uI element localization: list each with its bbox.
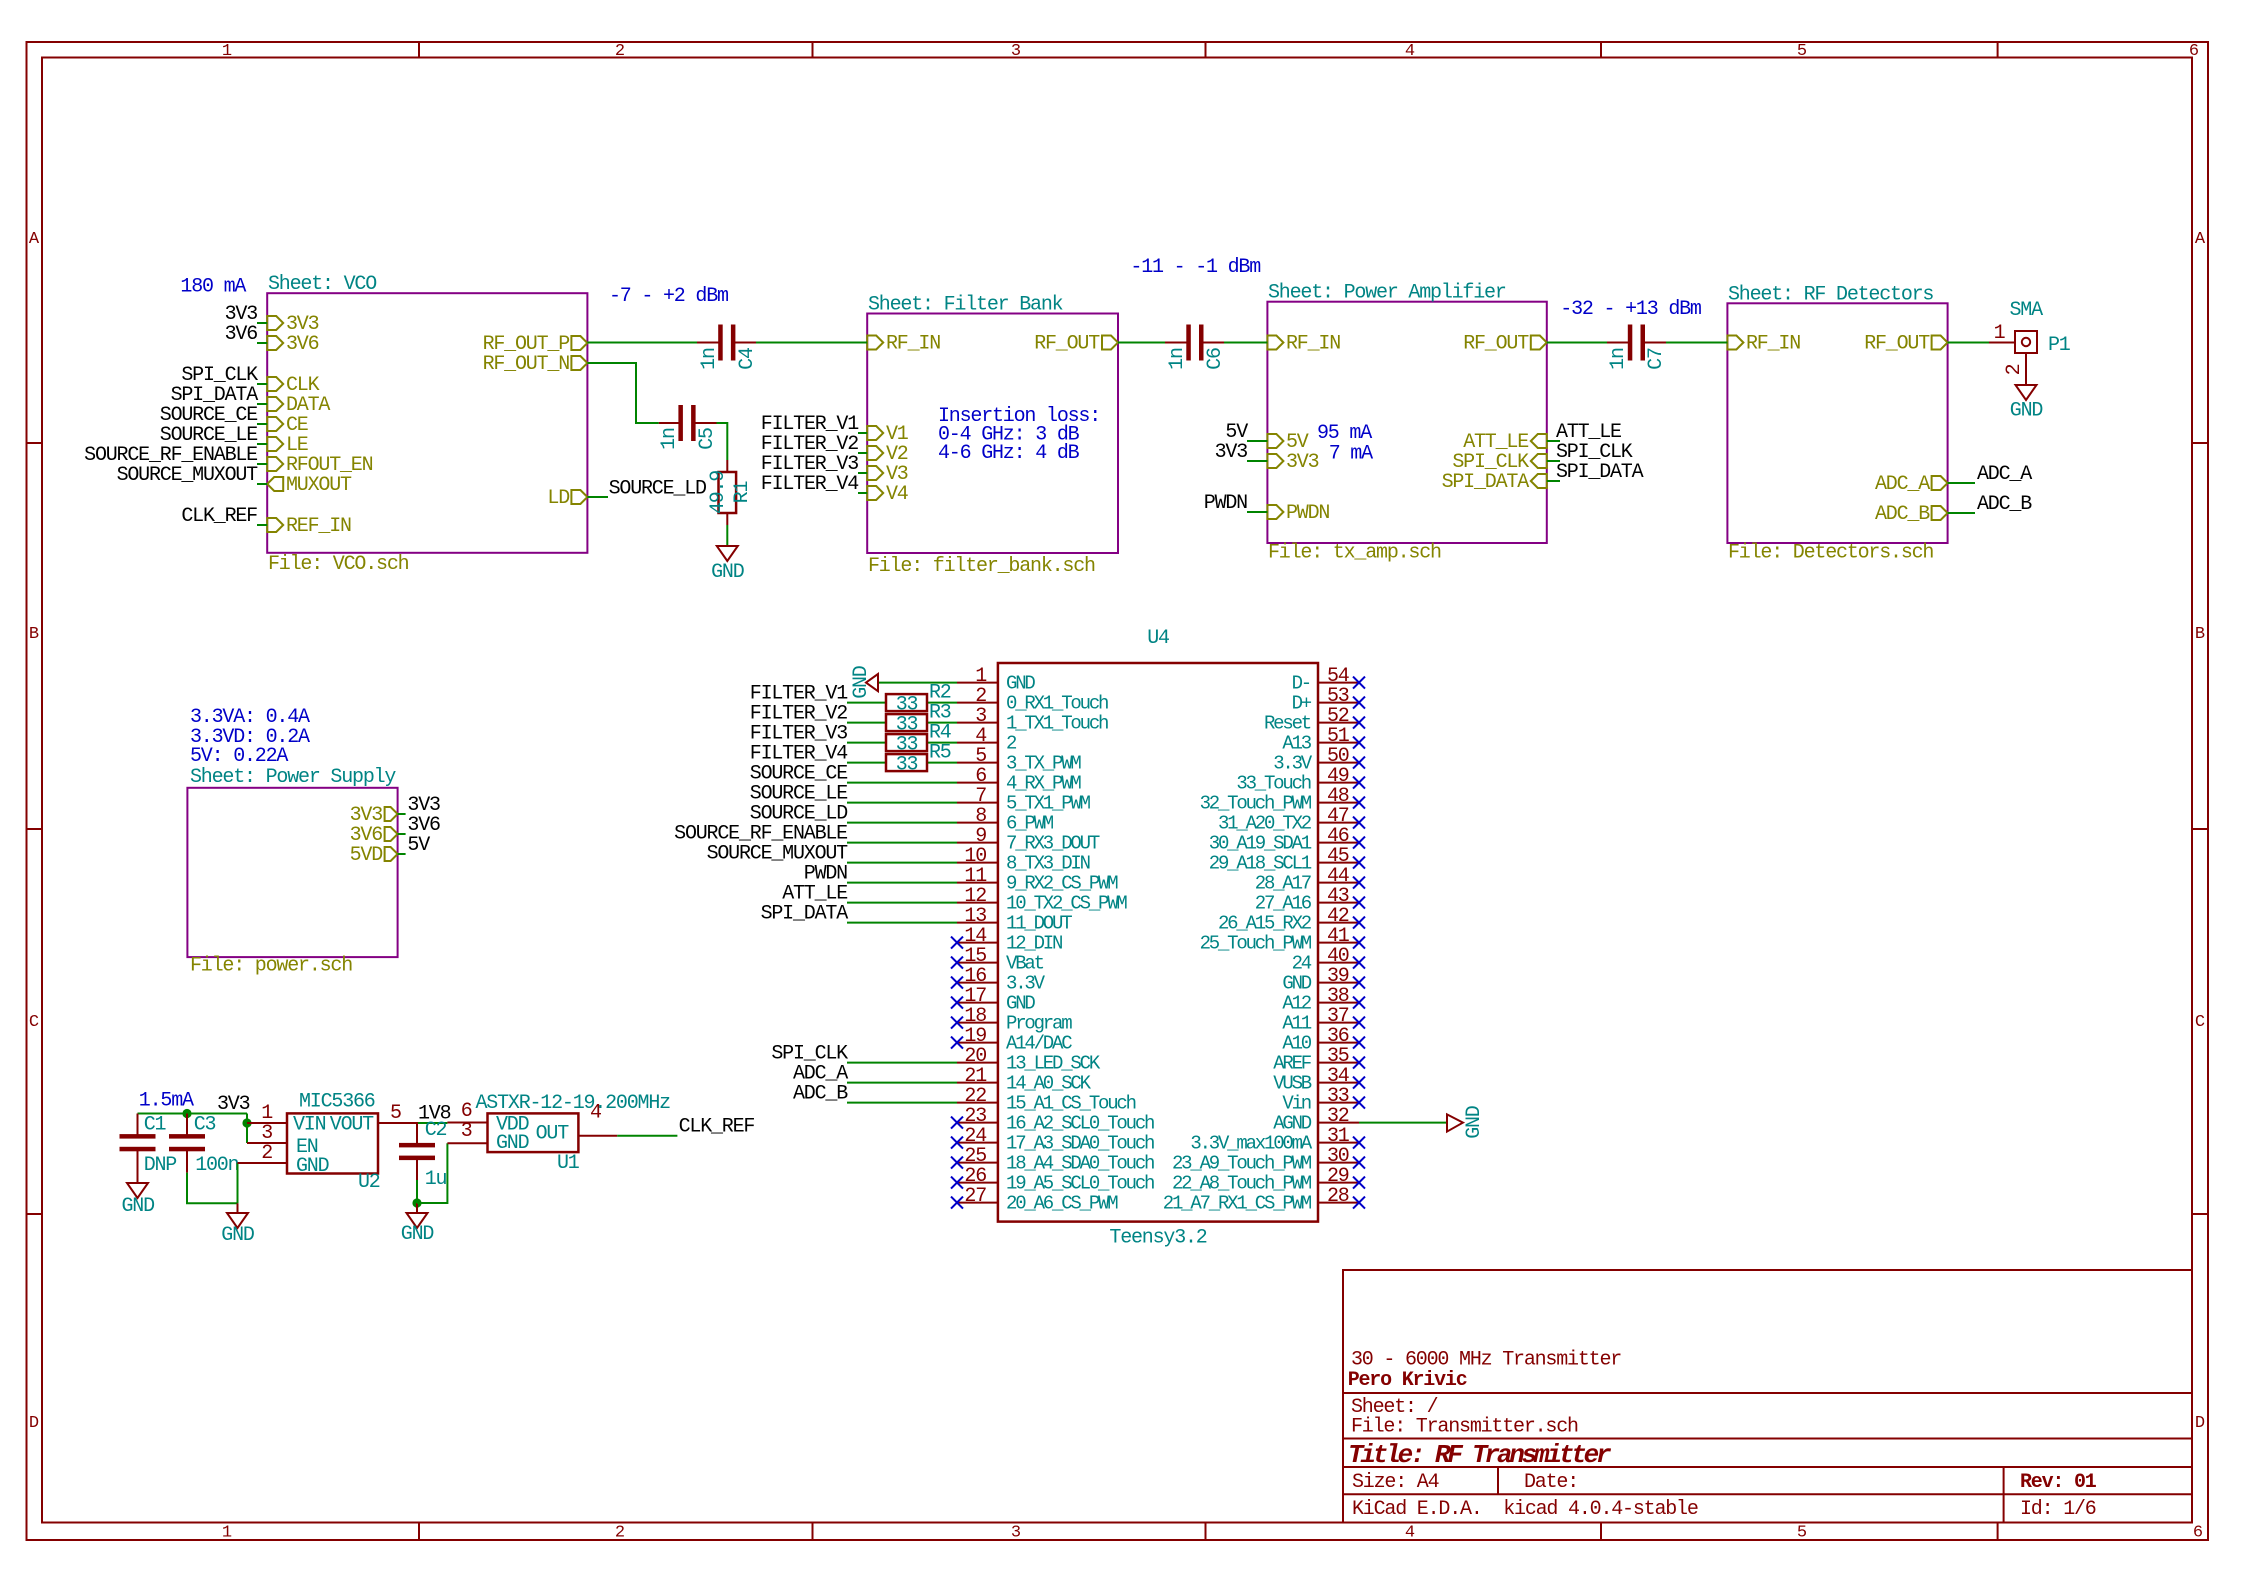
junction at C2 ground <box>412 1198 421 1207</box>
net label SOURCE_LD at U4 <box>750 803 847 826</box>
svg-text:3.3V_max100mA: 3.3V_max100mA <box>1190 1133 1312 1155</box>
note insertion loss <box>938 405 1100 465</box>
svg-text:8_TX3_DIN: 8_TX3_DIN <box>1006 853 1090 875</box>
PA sheet pin PWDN <box>1267 502 1329 525</box>
svg-text:49.9: 49.9 <box>707 471 730 514</box>
sheet name Power Amplifier <box>1268 282 1506 305</box>
sheet file filter_bank.sch <box>868 555 1095 578</box>
global label GND at U4 pin 1 <box>850 666 878 699</box>
net label SOURCE_LE at U4 <box>750 783 847 806</box>
wire R1 to ground <box>726 525 728 546</box>
wire P1 pin 2 to ground <box>2025 353 2027 385</box>
net label ADC_B <box>1977 493 2032 516</box>
svg-text:23_A9_Touch_PWM: 23_A9_Touch_PWM <box>1172 1153 1312 1175</box>
U4 pin 28 21_A7_RX1_CS_PWM <box>1163 1185 1365 1215</box>
svg-text:RF_IN: RF_IN <box>886 333 940 356</box>
net label FILTER_V4 <box>761 473 858 496</box>
U2 name MIC5366 <box>299 1091 375 1114</box>
wire stub to VCO 3V6 <box>257 342 267 344</box>
U4 pin 50 3.3V <box>1273 745 1365 775</box>
svg-text:95 mA: 95 mA <box>1317 422 1372 445</box>
svg-text:1: 1 <box>222 42 232 61</box>
wire RF_OUT_N to C5 <box>587 363 658 423</box>
svg-text:SOURCE_MUXOUT: SOURCE_MUXOUT <box>117 464 259 487</box>
U1 reference designator <box>557 1152 580 1175</box>
svg-text:1: 1 <box>222 1524 232 1543</box>
U4 pin 54 D- <box>1292 665 1365 695</box>
note power supply currents <box>190 706 310 768</box>
svg-text:-7 - +2 dBm: -7 - +2 dBm <box>609 285 728 308</box>
svg-text:REF_IN: REF_IN <box>286 515 351 538</box>
net label 3V3 at Power <box>407 794 440 817</box>
connector P1 SMA <box>2010 299 2071 357</box>
Filter sheet pin RF_IN <box>867 333 940 356</box>
wire mid ground to U2 GND pin <box>237 1163 239 1203</box>
net label ADC_A at U4 <box>793 1063 848 1086</box>
sheet file VCO.sch <box>268 553 409 576</box>
U4 pin 37 A11 <box>1282 1005 1365 1035</box>
svg-text:11_DOUT: 11_DOUT <box>1006 913 1072 935</box>
P1 pin 1 number <box>1994 322 2006 345</box>
svg-text:VIN: VIN <box>293 1113 326 1136</box>
U4 pin 42 26_A15_RX2 <box>1218 905 1365 935</box>
ground mid below U2 <box>221 1203 254 1247</box>
wire U1 OUT to CLK_REF <box>617 1135 677 1137</box>
U4 pin 23 16_A2_SCL0_Touch <box>951 1105 1154 1135</box>
svg-text:A11: A11 <box>1282 1013 1311 1035</box>
net label SOURCE_MUXOUT <box>117 464 259 487</box>
svg-text:7 mA: 7 mA <box>1329 443 1373 466</box>
U4 pin 51 A13 <box>1282 725 1365 755</box>
svg-text:15_A1_CS_Touch: 15_A1_CS_Touch <box>1006 1093 1136 1115</box>
svg-text:9_RX2_CS_PWM: 9_RX2_CS_PWM <box>1006 873 1118 895</box>
U4 pin 13 11_DOUT <box>957 905 1072 935</box>
wire C3 to mid ground <box>187 1173 238 1204</box>
Filter sheet pin V4 <box>867 483 908 506</box>
title block file <box>1351 1416 1578 1439</box>
net label ATT_LE at U4 <box>782 883 847 906</box>
svg-text:Vin: Vin <box>1282 1093 1310 1115</box>
svg-text:C6: C6 <box>1204 348 1227 370</box>
svg-text:U4: U4 <box>1147 627 1169 650</box>
Power sheet pin 5VD <box>350 844 398 867</box>
svg-text:Title: RF Transmitter: Title: RF Transmitter <box>1348 1440 1612 1470</box>
PA sheet pin 5V <box>1267 431 1308 454</box>
svg-text:C1: C1 <box>144 1113 167 1136</box>
capacitor C5 <box>658 405 719 450</box>
svg-text:19_A5_SCL0_Touch: 19_A5_SCL0_Touch <box>1006 1173 1154 1195</box>
net label 3V3 at U2 <box>217 1093 250 1116</box>
svg-text:MIC5366: MIC5366 <box>299 1091 375 1114</box>
svg-text:2: 2 <box>615 1524 625 1543</box>
svg-text:28: 28 <box>1327 1185 1349 1208</box>
svg-text:1u: 1u <box>425 1168 447 1191</box>
Detectors sheet pin ADC_A <box>1875 473 1948 496</box>
U4 pin 14 12_DIN <box>951 925 1062 955</box>
VCO sheet pin LD <box>547 487 587 510</box>
svg-text:ADC_B: ADC_B <box>793 1083 848 1106</box>
U4 pin 27 20_A6_CS_PWM <box>951 1185 1118 1215</box>
svg-text:28_A17: 28_A17 <box>1255 873 1311 895</box>
U4 pin 47 31_A20_TX2 <box>1218 805 1365 835</box>
svg-text:4_RX_PWM: 4_RX_PWM <box>1006 773 1081 795</box>
svg-text:3: 3 <box>461 1120 472 1143</box>
svg-text:16_A2_SCL0_Touch: 16_A2_SCL0_Touch <box>1006 1113 1154 1135</box>
net label SOURCE_CE <box>160 404 257 427</box>
svg-text:1: 1 <box>1994 322 2006 345</box>
U4 pin 22 15_A1_CS_Touch <box>957 1085 1136 1115</box>
svg-text:File: filter_bank.sch: File: filter_bank.sch <box>868 555 1095 578</box>
net label SOURCE_CE at U4 <box>750 763 847 786</box>
svg-text:24: 24 <box>1292 953 1312 975</box>
svg-text:3_TX_PWM: 3_TX_PWM <box>1006 753 1081 775</box>
svg-text:File: Transmitter.sch: File: Transmitter.sch <box>1351 1416 1578 1439</box>
svg-text:27: 27 <box>964 1185 986 1208</box>
resistor R4 <box>886 722 951 757</box>
U4 pin 25 18_A4_SDA0_Touch <box>951 1145 1154 1175</box>
svg-text:SMA: SMA <box>2010 299 2044 322</box>
note -32 - +13 dBm <box>1560 298 1701 321</box>
svg-text:5V: 5V <box>407 834 430 857</box>
svg-text:Id: 1/6: Id: 1/6 <box>2020 1498 2096 1521</box>
hierarchical sheet Filter Bank <box>867 314 1118 554</box>
U4 pin 32 AGND <box>1273 1105 1359 1135</box>
svg-text:20_A6_CS_PWM: 20_A6_CS_PWM <box>1006 1193 1118 1215</box>
wire SOURCE_CE to U4 pin 6 <box>847 782 957 784</box>
U4 pin 6 4_RX_PWM <box>957 765 1081 795</box>
sheet name Power Supply <box>190 766 396 789</box>
VCO sheet pin RF_OUT_P <box>483 333 588 356</box>
svg-text:31_A20_TX2: 31_A20_TX2 <box>1218 813 1312 835</box>
svg-text:SPI_DATA: SPI_DATA <box>1442 471 1530 494</box>
svg-text:14_A0_SCK: 14_A0_SCK <box>1006 1073 1092 1095</box>
U4 pin 15 VBat <box>951 945 1044 975</box>
svg-text:ADC_B: ADC_B <box>1875 503 1930 526</box>
svg-text:Reset: Reset <box>1264 713 1311 735</box>
wire C6 to PA RF_IN <box>1224 342 1267 344</box>
U1 pin 6 VDD <box>447 1100 528 1136</box>
U1 pin 4 OUT <box>536 1101 618 1145</box>
svg-text:33: 33 <box>896 754 918 777</box>
ground below C2 <box>401 1203 434 1246</box>
VCO sheet pin 3V3 <box>267 313 318 336</box>
U4 pin 34 VUSB <box>1273 1065 1365 1095</box>
wire from Power 5VD <box>398 853 406 855</box>
svg-text:C5: C5 <box>696 428 719 450</box>
net label FILTER_V2 at U4 <box>750 703 847 726</box>
sheet file Detectors.sch <box>1728 542 1933 565</box>
Detectors sheet pin RF_OUT <box>1864 333 1947 356</box>
svg-text:C3: C3 <box>194 1113 216 1136</box>
hierarchical sheet VCO <box>267 293 587 553</box>
svg-text:Sheet: Power Amplifier: Sheet: Power Amplifier <box>1268 282 1506 305</box>
U1 name ASTXR-12-19.200MHz <box>476 1092 671 1115</box>
svg-text:17_A3_SDA0_Touch: 17_A3_SDA0_Touch <box>1006 1133 1154 1155</box>
svg-text:5VD: 5VD <box>350 844 383 867</box>
U4 pin 24 17_A3_SDA0_Touch <box>951 1125 1154 1155</box>
svg-text:C4: C4 <box>736 348 759 370</box>
svg-text:3V6: 3V6 <box>225 323 258 346</box>
svg-text:13_LED_SCK: 13_LED_SCK <box>1006 1053 1101 1075</box>
svg-text:-32 - +13 dBm: -32 - +13 dBm <box>1560 298 1701 321</box>
wire SOURCE_LD to U4 pin 8 <box>847 822 957 824</box>
svg-text:LD: LD <box>547 487 569 510</box>
svg-text:ADC_A: ADC_A <box>1875 473 1930 496</box>
svg-text:100n: 100n <box>195 1154 238 1177</box>
svg-text:U1: U1 <box>557 1152 580 1175</box>
ground below P1 <box>2010 385 2043 423</box>
U4 pin 49 33_Touch <box>1236 765 1365 795</box>
net label FILTER_V2 <box>761 433 858 456</box>
capacitor C6 <box>1165 325 1227 370</box>
svg-text:Sheet: RF Detectors: Sheet: RF Detectors <box>1728 283 1933 306</box>
net label ATT_LE <box>1556 421 1621 444</box>
svg-text:C: C <box>2195 1013 2205 1032</box>
U4 value Teensy3.2 <box>1109 1226 1206 1249</box>
title block frame <box>1343 1270 2192 1523</box>
svg-text:26_A15_RX2: 26_A15_RX2 <box>1218 913 1312 935</box>
svg-text:GND: GND <box>711 561 744 584</box>
sheet file power.sch <box>190 954 352 977</box>
PA sheet pin ATT_LE <box>1463 431 1547 454</box>
capacitor C1 <box>120 1113 177 1183</box>
svg-text:30 - 6000 MHz Transmitter: 30 - 6000 MHz Transmitter <box>1351 1349 1621 1372</box>
U4 pin 29 22_A8_Touch_PWM <box>1172 1165 1365 1195</box>
svg-text:R5: R5 <box>929 742 951 765</box>
U4 reference designator <box>1147 627 1169 650</box>
resistor R5 <box>886 742 951 777</box>
sheet file tx_amp.sch <box>1268 542 1441 565</box>
title block date <box>1524 1471 1578 1494</box>
svg-text:SPI_DATA: SPI_DATA <box>761 903 849 926</box>
junction at VIN <box>242 1118 251 1127</box>
P1 pin 2 number <box>2003 364 2026 375</box>
wire stub to VCO 3V3 <box>257 322 267 324</box>
svg-text:U2: U2 <box>358 1171 380 1194</box>
wire ATT_LE to U4 pin 12 <box>847 902 957 904</box>
svg-text:3: 3 <box>1011 1524 1021 1543</box>
svg-text:B: B <box>29 625 39 644</box>
VCO sheet pin CLK <box>267 374 319 397</box>
svg-text:180 mA: 180 mA <box>180 276 246 299</box>
sheet name VCO <box>268 273 376 296</box>
U4 pin 7 5_TX1_PWM <box>957 785 1091 815</box>
svg-text:3.3V: 3.3V <box>1006 973 1046 995</box>
svg-text:ADC_A: ADC_A <box>1977 463 2032 486</box>
svg-text:RF_OUT: RF_OUT <box>1463 333 1529 356</box>
capacitor C4 <box>697 325 759 370</box>
U4 pin 18 Program <box>951 1005 1072 1035</box>
U4 pin 16 3.3V <box>951 965 1046 995</box>
svg-text:AREF: AREF <box>1273 1053 1312 1075</box>
wire stub to Filter V4 <box>858 492 867 494</box>
wire rail elbow to VIN <box>246 1114 248 1124</box>
wire C2 to ground <box>416 1180 418 1203</box>
svg-text:-11 - -1 dBm: -11 - -1 dBm <box>1130 256 1260 279</box>
svg-text:6_PWM: 6_PWM <box>1006 813 1054 835</box>
wire stub to PA 5V <box>1247 440 1267 442</box>
VCO sheet pin MUXOUT <box>267 474 352 497</box>
svg-text:MUXOUT: MUXOUT <box>286 474 352 497</box>
svg-text:5: 5 <box>1797 1524 1807 1543</box>
wire VCO LD to label <box>587 496 608 498</box>
svg-text:PWDN: PWDN <box>1286 502 1329 525</box>
svg-text:RF_IN: RF_IN <box>1746 333 1800 356</box>
net label 3V3 <box>225 303 258 326</box>
U4 pin 21 14_A0_SCK <box>957 1065 1092 1095</box>
wire stub to PA PWDN <box>1247 511 1267 513</box>
net label 3V6 at Power <box>407 814 440 837</box>
svg-text:SOURCE_LD: SOURCE_LD <box>609 478 706 501</box>
IC U1 ASTXR body <box>488 1113 579 1152</box>
sheet name RF Detectors <box>1728 283 1933 306</box>
wire C4 to Filter RF_IN <box>756 342 867 344</box>
svg-text:Pero Krivic: Pero Krivic <box>1348 1369 1467 1392</box>
VCO sheet pin CE <box>267 414 308 437</box>
capacitor C7 <box>1607 325 1668 370</box>
wire VOUT to VDD <box>418 1122 447 1124</box>
global label GND at U4 pin 32 <box>1447 1106 1486 1139</box>
net label SPI_CLK at U4 <box>771 1043 848 1066</box>
svg-text:GND: GND <box>850 666 873 699</box>
svg-text:A13: A13 <box>1282 733 1311 755</box>
Power sheet pin 3V6 <box>350 824 398 847</box>
wire R4 to U4 pin 4 <box>927 742 957 744</box>
IC U4 Teensy3.2 body <box>998 663 1318 1222</box>
svg-text:3V3: 3V3 <box>217 1093 250 1116</box>
svg-text:KiCad E.D.A. kicad 4.0.4-stab: KiCad E.D.A. kicad 4.0.4-stable <box>1352 1498 1698 1521</box>
ground below C1 <box>121 1183 154 1218</box>
wire PA RF_OUT to C7 <box>1547 342 1607 344</box>
U4 pin 40 24 <box>1292 945 1365 975</box>
svg-text:D: D <box>2195 1414 2205 1433</box>
wire from Power 3V3 <box>398 813 406 815</box>
wire RF_OUT_P to C4 <box>587 342 697 344</box>
svg-text:1_TX1_Touch: 1_TX1_Touch <box>1006 713 1108 735</box>
wire U4 pin 32 AGND to GND label <box>1359 1122 1447 1124</box>
wire from Power 3V6 <box>398 833 406 835</box>
svg-text:Rev: 01: Rev: 01 <box>2020 1471 2097 1494</box>
U4 pin 33 Vin <box>1282 1085 1365 1115</box>
Filter sheet pin V2 <box>867 443 908 466</box>
U4 pin 38 A12 <box>1282 985 1365 1015</box>
PA sheet pin SPI_CLK <box>1452 451 1546 474</box>
U4 pin 9 7_RX3_DOUT <box>957 825 1100 855</box>
svg-text:Sheet: VCO: Sheet: VCO <box>268 273 376 296</box>
svg-text:2: 2 <box>615 42 625 61</box>
svg-text:Teensy3.2: Teensy3.2 <box>1109 1226 1206 1249</box>
Filter sheet pin V1 <box>867 423 909 446</box>
capacitor C2 <box>399 1119 447 1191</box>
U4 pin 36 A10 <box>1282 1025 1365 1055</box>
svg-text:2: 2 <box>261 1142 272 1165</box>
svg-text:2: 2 <box>2003 364 2026 375</box>
VCO sheet pin DATA <box>267 394 330 417</box>
net label 5V at PA <box>1225 421 1248 444</box>
wire FILTER_V1 to R2 <box>847 702 886 704</box>
svg-text:File: VCO.sch: File: VCO.sch <box>268 553 409 576</box>
wire stub to VCO SOURCE_LE <box>257 443 267 445</box>
svg-text:File: Detectors.sch: File: Detectors.sch <box>1728 542 1933 565</box>
wire SOURCE_MUXOUT to U4 pin 10 <box>847 862 957 864</box>
wire PWDN to U4 pin 11 <box>847 882 957 884</box>
svg-text:GND: GND <box>121 1195 154 1218</box>
U4 pin 20 13_LED_SCK <box>957 1045 1101 1075</box>
svg-text:GND: GND <box>2010 400 2043 423</box>
wire R2 to U4 pin 2 <box>927 702 957 704</box>
net label SPI_DATA <box>1556 461 1644 484</box>
Power sheet pin 3V3 <box>350 804 398 827</box>
svg-text:V4: V4 <box>886 483 908 506</box>
svg-text:0_RX1_Touch: 0_RX1_Touch <box>1006 693 1108 715</box>
svg-text:D: D <box>29 1414 39 1433</box>
svg-text:30_A19_SDA1: 30_A19_SDA1 <box>1209 833 1312 855</box>
VCO sheet pin RF_OUT_N <box>483 353 588 376</box>
svg-text:A: A <box>2195 230 2206 249</box>
U4 pin 48 32_Touch_PWM <box>1200 785 1365 815</box>
svg-text:1n: 1n <box>658 428 681 450</box>
svg-text:32_Touch_PWM: 32_Touch_PWM <box>1200 793 1312 815</box>
svg-text:ADC_B: ADC_B <box>1977 493 2032 516</box>
wire Detectors RF_OUT to P1 <box>1948 342 1989 344</box>
wire to P1 pin 1 <box>1989 342 2015 344</box>
svg-text:25_Touch_PWM: 25_Touch_PWM <box>1200 933 1312 955</box>
svg-text:File: tx_amp.sch: File: tx_amp.sch <box>1268 542 1441 565</box>
U4 pin 4 2 <box>957 725 1017 755</box>
wire U4 pin1 to GND label <box>878 682 957 684</box>
svg-text:FILTER_V4: FILTER_V4 <box>761 473 858 496</box>
svg-text:GND: GND <box>496 1132 529 1155</box>
U4 pin 46 30_A19_SDA1 <box>1209 825 1365 855</box>
U4 pin 45 29_A18_SCL1 <box>1209 845 1365 875</box>
U4 pin 1 GND <box>957 665 1035 695</box>
net label SPI_DATA at U4 <box>761 903 849 926</box>
U4 pin 35 AREF <box>1273 1045 1365 1075</box>
svg-text:D-: D- <box>1292 673 1310 695</box>
svg-text:6: 6 <box>2193 1524 2203 1543</box>
svg-text:GND: GND <box>1463 1106 1486 1139</box>
svg-text:3V3: 3V3 <box>1286 451 1319 474</box>
U4 pin 39 GND <box>1282 965 1365 995</box>
wire stub to VCO SPI_CLK <box>257 383 267 385</box>
net label SOURCE_MUXOUT at U4 <box>707 843 849 866</box>
svg-text:PWDN: PWDN <box>1204 492 1247 515</box>
svg-text:Program: Program <box>1006 1013 1072 1035</box>
net label 1V8 <box>418 1103 451 1126</box>
net label SOURCE_RF_ENABLE <box>84 444 257 467</box>
svg-text:CLK_REF: CLK_REF <box>181 505 257 528</box>
net label SPI_CLK <box>181 364 258 387</box>
capacitor C3 <box>169 1113 239 1177</box>
hierarchical sheet Power Supply <box>187 788 397 957</box>
svg-text:10_TX2_CS_PWM: 10_TX2_CS_PWM <box>1006 893 1127 915</box>
net label SOURCE_LD <box>609 478 706 501</box>
title block size <box>1352 1471 1439 1494</box>
net label ADC_B at U4 <box>793 1083 848 1106</box>
svg-text:5: 5 <box>1797 42 1807 61</box>
note PA currents <box>1317 422 1373 466</box>
svg-text:22_A8_Touch_PWM: 22_A8_Touch_PWM <box>1172 1173 1312 1195</box>
svg-text:RF_OUT: RF_OUT <box>1034 333 1100 356</box>
title block rev <box>2020 1471 2097 1494</box>
net label SPI_CLK <box>1556 441 1633 464</box>
svg-text:C7: C7 <box>1645 348 1668 370</box>
net label CLK_REF <box>181 505 257 528</box>
U2 pin 1 VIN <box>247 1102 326 1136</box>
wire FILTER_V2 to R3 <box>847 722 886 724</box>
resistor R2 <box>886 682 951 717</box>
svg-text:3V3: 3V3 <box>1215 441 1248 464</box>
